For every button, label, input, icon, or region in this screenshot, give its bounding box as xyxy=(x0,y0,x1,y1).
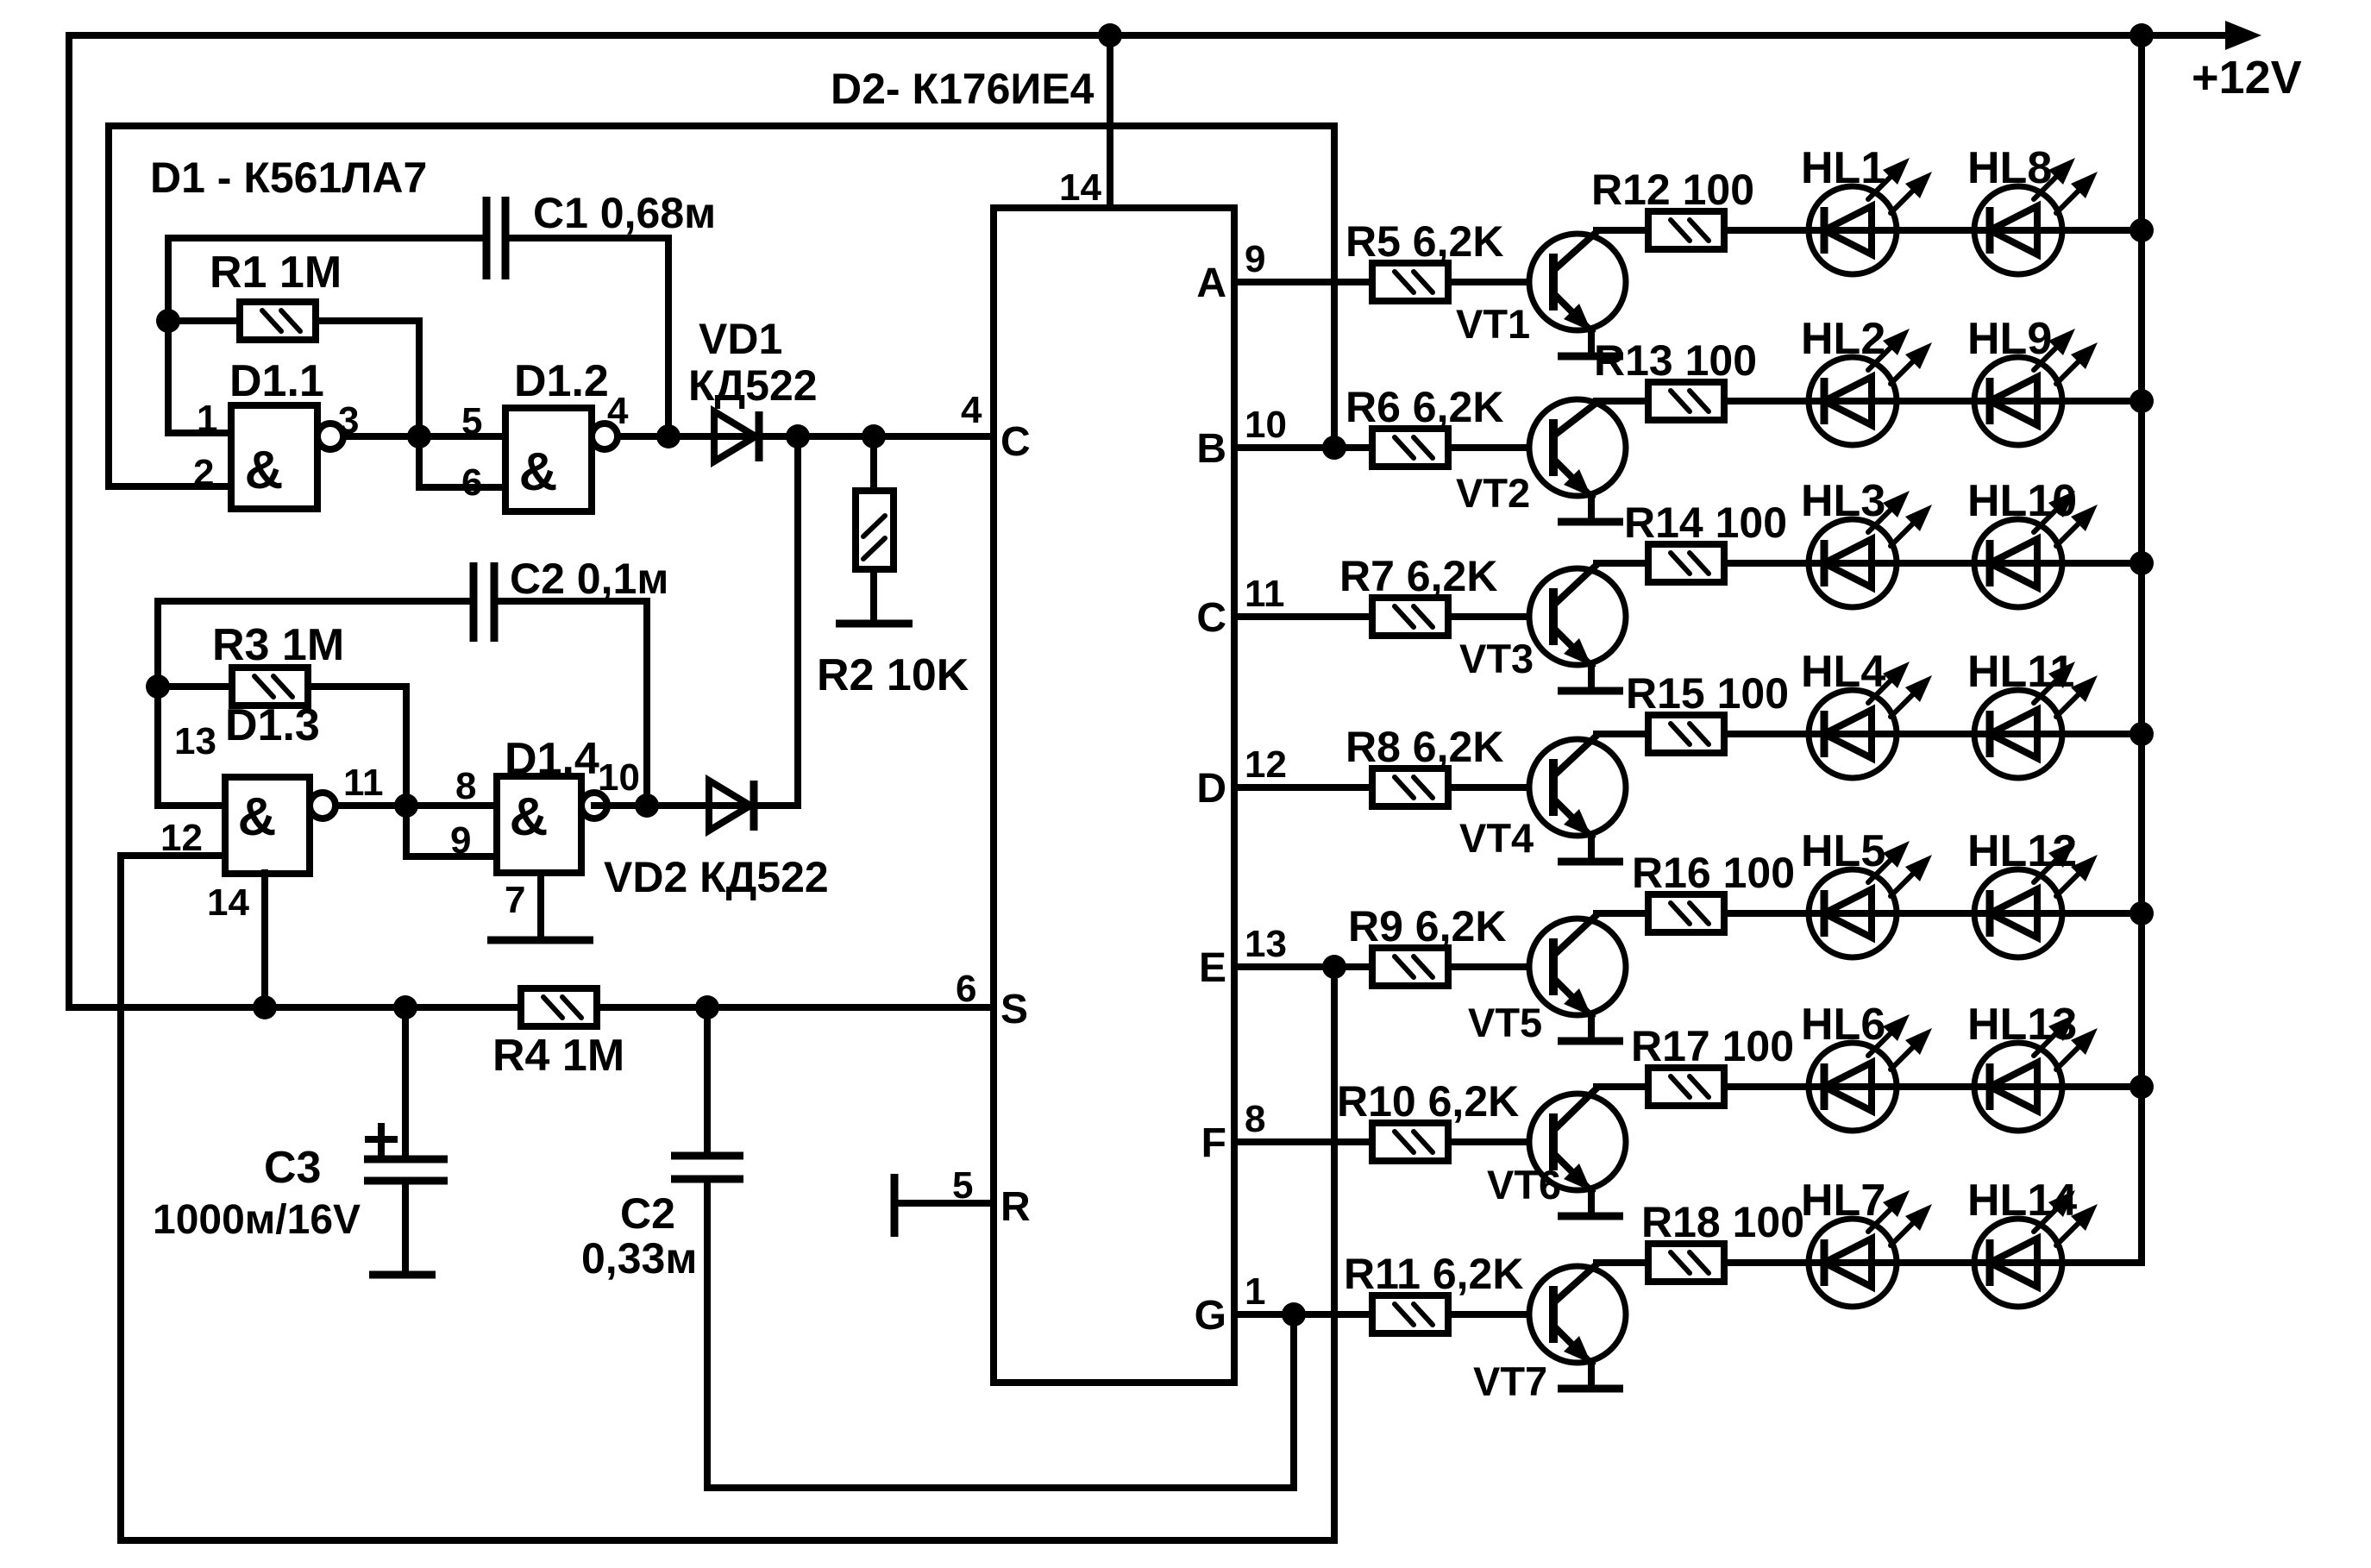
svg-text:HL2: HL2 xyxy=(1801,314,1885,364)
svg-text:R6 6,2K: R6 6,2K xyxy=(1345,383,1503,431)
wire C2-0,33 bottom to G loop xyxy=(707,1179,1294,1488)
wire outer frame left and S row xyxy=(69,35,994,1007)
svg-text:HL5: HL5 xyxy=(1801,826,1885,876)
resistor R14 100 xyxy=(1648,544,1724,582)
resistor R1 1M xyxy=(240,302,316,340)
LED HL4 xyxy=(1809,662,1932,778)
svg-text:HL6: HL6 xyxy=(1801,1000,1885,1050)
svg-text:HL11: HL11 xyxy=(1967,647,2074,697)
junction bus row HL11 xyxy=(2130,722,2154,746)
gate D1.1 xyxy=(231,405,343,509)
LED HL6 xyxy=(1809,1014,1932,1131)
LED HL11 xyxy=(1974,662,2098,778)
junction bus row HL9 xyxy=(2130,389,2154,413)
wire D1.2 output pin 4 to pin C of D2 xyxy=(618,433,994,440)
svg-text:3: 3 xyxy=(338,399,359,442)
junction D1.1 output xyxy=(407,424,431,448)
ground bar R2 xyxy=(836,620,913,628)
svg-text:14: 14 xyxy=(207,881,249,924)
svg-text:R18 100: R18 100 xyxy=(1641,1198,1804,1246)
svg-text:4: 4 xyxy=(607,390,629,432)
svg-text:&: & xyxy=(238,787,277,847)
svg-text:R4 1M: R4 1M xyxy=(492,1031,624,1081)
resistor R4 1M xyxy=(521,988,597,1026)
transistor VT5 xyxy=(1529,915,1626,1041)
svg-text:VT4: VT4 xyxy=(1459,815,1534,861)
svg-text:HL4: HL4 xyxy=(1801,647,1885,697)
svg-text:VD2 КД522: VD2 КД522 xyxy=(604,853,829,901)
IC D2 K176IE4 box xyxy=(994,208,1234,1383)
wire pin F row xyxy=(1234,1138,1549,1145)
gate D1.3 xyxy=(225,777,336,874)
junction R2 tap xyxy=(862,424,886,448)
junction on top rail at pin14 xyxy=(1098,23,1122,47)
LED HL8 xyxy=(1974,158,2098,274)
wire D1.4 pin 7 to common xyxy=(537,873,544,940)
svg-text:D1 - К561ЛА7: D1 - К561ЛА7 xyxy=(150,154,427,202)
junction bus row HL13 xyxy=(2130,1075,2154,1099)
wire C1 right to D1.2 output node xyxy=(505,238,668,436)
svg-text:VT3: VT3 xyxy=(1459,636,1534,681)
node +12V arrow xyxy=(2225,21,2261,50)
svg-text:C: C xyxy=(1196,595,1226,641)
svg-text:8: 8 xyxy=(455,765,476,807)
svg-text:VT1: VT1 xyxy=(1456,301,1530,347)
svg-text:КД522: КД522 xyxy=(688,361,818,410)
resistor R5 6,2K xyxy=(1372,263,1448,301)
svg-text:D1.2: D1.2 xyxy=(514,356,609,406)
svg-text:R1 1M: R1 1M xyxy=(210,248,342,298)
wire D1.2 pin 6 tie xyxy=(419,436,505,487)
junction C3 at S row xyxy=(393,995,417,1019)
svg-text:R14 100: R14 100 xyxy=(1624,499,1787,547)
resistor R10 6,2K xyxy=(1372,1123,1448,1161)
transistor VT1 xyxy=(1529,232,1626,356)
gate D1.4 xyxy=(497,776,607,873)
LED HL7 xyxy=(1809,1190,1932,1307)
svg-text:R15 100: R15 100 xyxy=(1626,669,1789,718)
diode VD2 KD522 xyxy=(709,781,754,831)
svg-text:R7 6,2K: R7 6,2K xyxy=(1339,552,1497,600)
wire pin C row xyxy=(1234,613,1549,620)
junction bus row HL10 xyxy=(2130,551,2154,575)
svg-text:D1.3: D1.3 xyxy=(225,700,320,750)
resistor R16 100 xyxy=(1648,894,1724,932)
transistor VT2 xyxy=(1529,399,1626,522)
svg-text:HL1: HL1 xyxy=(1801,143,1885,193)
svg-text:HL9: HL9 xyxy=(1967,314,2052,364)
LED HL3 xyxy=(1809,491,1932,607)
svg-text:VT5: VT5 xyxy=(1468,1000,1542,1045)
junction E row xyxy=(1322,955,1346,979)
svg-text:C1 0,68м: C1 0,68м xyxy=(533,189,716,237)
junction C1 to output-4 node xyxy=(656,424,681,448)
LED HL1 xyxy=(1809,158,1932,274)
junction B row xyxy=(1322,436,1346,460)
svg-text:F: F xyxy=(1201,1120,1226,1166)
transistor VT4 xyxy=(1529,736,1626,862)
resistor R3 wire xyxy=(158,687,406,806)
wire LED row HL6 xyxy=(1596,1083,2142,1090)
junction B row feedback xyxy=(1322,436,1346,460)
svg-text:1: 1 xyxy=(1245,1270,1265,1313)
wire C1 left to D1.1 pin 1 xyxy=(168,238,486,433)
svg-text:HL13: HL13 xyxy=(1967,1000,2077,1050)
svg-text:&: & xyxy=(245,441,284,500)
wire LED row HL5 xyxy=(1596,910,2142,917)
capacitor C3 1000u electrolytic xyxy=(364,1007,448,1275)
svg-text:C2 0,1м: C2 0,1м xyxy=(510,555,668,603)
junction on top rail at bus xyxy=(2130,23,2154,47)
wire D1.3 output pin 11 to D1.4 pin 8 xyxy=(336,802,497,809)
wire D1.3 pin 12 to E feedback loop xyxy=(121,856,1334,1540)
svg-text:HL14: HL14 xyxy=(1967,1176,2077,1226)
svg-text:9: 9 xyxy=(450,819,471,862)
capacitor C1 0,68u xyxy=(486,197,505,279)
svg-text:HL10: HL10 xyxy=(1967,476,2077,526)
svg-text:HL3: HL3 xyxy=(1801,476,1885,526)
wire pin A row xyxy=(1234,279,1549,285)
resistor R6 6,2K xyxy=(1372,429,1448,467)
junction R3 left xyxy=(146,674,170,699)
svg-text:6: 6 xyxy=(461,461,482,504)
svg-text:0,33м: 0,33м xyxy=(581,1234,697,1283)
svg-text:B: B xyxy=(1196,426,1226,472)
svg-text:A: A xyxy=(1196,260,1226,306)
LED HL10 xyxy=(1974,491,2098,607)
LED HL12 xyxy=(1974,841,2098,957)
wire pin 14 supply of D2 xyxy=(1107,35,1113,208)
svg-text:+12V: +12V xyxy=(2192,52,2302,103)
LED HL14 xyxy=(1974,1190,2098,1307)
svg-text:C: C xyxy=(1000,419,1031,465)
junction C2-0,33 at S row xyxy=(695,995,719,1019)
wire D1.4 output pin 10 to VD2 xyxy=(594,802,798,809)
svg-text:6: 6 xyxy=(956,968,976,1010)
transistor VT7 xyxy=(1529,1264,1626,1389)
diode VD1 KD522 xyxy=(714,411,759,461)
svg-text:12: 12 xyxy=(1245,743,1287,786)
junction D1.3 output xyxy=(394,793,418,818)
junction G row xyxy=(1282,1302,1306,1327)
svg-text:D1.1: D1.1 xyxy=(229,356,324,406)
gate D1.2 xyxy=(505,408,618,511)
wire VD1 node down to VD2 cathode xyxy=(794,436,801,806)
resistor R17 100 xyxy=(1648,1068,1724,1106)
wire C2 right to D1.4 output node xyxy=(494,601,647,806)
svg-text:13: 13 xyxy=(1245,923,1287,965)
wire D1.1 output pin 3 to D1.2 pin 5 xyxy=(343,433,505,440)
svg-text:10: 10 xyxy=(1245,404,1287,446)
svg-text:R3 1M: R3 1M xyxy=(212,620,344,670)
ground bar pin 7 xyxy=(487,937,593,944)
wire pin G row xyxy=(1234,1311,1549,1318)
svg-text:R13 100: R13 100 xyxy=(1594,336,1757,385)
capacitor C2 0,33u xyxy=(671,1007,743,1179)
resistor R1 wire xyxy=(168,321,419,436)
svg-text:R8 6,2K: R8 6,2K xyxy=(1345,723,1503,771)
svg-text:VD1: VD1 xyxy=(699,315,782,363)
resistor R7 6,2K xyxy=(1372,598,1448,636)
junction bus row HL8 xyxy=(2130,218,2154,242)
wire feedback B to D1.1 pin 2 xyxy=(109,126,1334,486)
svg-text:5: 5 xyxy=(461,400,482,442)
svg-text:8: 8 xyxy=(1245,1098,1265,1140)
svg-text:R11 6,2K: R11 6,2K xyxy=(1344,1250,1523,1298)
svg-text:VT6: VT6 xyxy=(1487,1162,1561,1207)
resistor R11 6,2K xyxy=(1372,1295,1448,1333)
resistor R8 6,2K xyxy=(1372,768,1448,806)
wire LED row HL4 xyxy=(1596,731,2142,737)
junction pin14 at S row xyxy=(253,995,277,1019)
svg-text:R16 100: R16 100 xyxy=(1632,849,1795,897)
svg-text:C2: C2 xyxy=(620,1189,675,1238)
resistor R12 100 xyxy=(1648,211,1724,249)
svg-text:VT7: VT7 xyxy=(1473,1358,1547,1404)
svg-text:1000м/16V: 1000м/16V xyxy=(153,1197,361,1243)
wire pin D row xyxy=(1234,784,1549,791)
resistor R9 6,2K xyxy=(1372,948,1448,986)
svg-text:R2 10K: R2 10K xyxy=(817,650,969,700)
wire LED cathode bus right xyxy=(2138,35,2145,1263)
svg-text:R17 100: R17 100 xyxy=(1631,1022,1794,1070)
svg-text:11: 11 xyxy=(343,762,384,804)
LED HL5 xyxy=(1809,841,1932,957)
wire D1.3 pin 14 down to S row xyxy=(261,873,268,1007)
wire C2 left to D1.3 pin 13 xyxy=(158,601,474,806)
wire LED row HL2 xyxy=(1596,398,2142,405)
svg-text:HL8: HL8 xyxy=(1967,143,2052,193)
wire pin E row xyxy=(1234,963,1549,970)
resistor R2 wire down xyxy=(870,436,877,624)
wire LED row HL1 xyxy=(1596,227,2142,234)
svg-text:7: 7 xyxy=(505,879,525,921)
junction VD node to VD2 xyxy=(786,424,810,448)
svg-text:1: 1 xyxy=(197,398,217,440)
svg-text:HL12: HL12 xyxy=(1967,826,2077,876)
resistor R13 100 xyxy=(1648,382,1724,420)
svg-text:11: 11 xyxy=(1245,573,1285,615)
junction C2 to pin10 node xyxy=(635,793,659,818)
wire LED row HL7 xyxy=(1596,1259,2142,1266)
transistor VT3 xyxy=(1529,565,1626,691)
svg-text:2: 2 xyxy=(193,452,214,494)
svg-text:D1.4: D1.4 xyxy=(505,734,599,784)
svg-text:14: 14 xyxy=(1059,166,1101,209)
junction bus row HL12 xyxy=(2130,901,2154,925)
svg-text:&: & xyxy=(510,787,549,847)
svg-text:S: S xyxy=(1000,987,1028,1032)
wire D1.4 pin 9 tie xyxy=(406,806,497,856)
svg-text:D2- К176ИЕ4: D2- К176ИЕ4 xyxy=(831,65,1095,113)
wire LED row HL3 xyxy=(1596,560,2142,567)
LED HL13 xyxy=(1974,1014,2098,1131)
resistor R3 1M xyxy=(232,668,308,706)
svg-text:R10 6,2K: R10 6,2K xyxy=(1337,1077,1519,1126)
LED HL2 xyxy=(1809,329,1932,445)
capacitor C2 0,1u xyxy=(474,562,494,642)
wire R pin to terminator xyxy=(897,1200,994,1207)
svg-text:&: & xyxy=(519,442,558,502)
terminator bar R pin xyxy=(891,1174,899,1237)
svg-text:R5 6,2K: R5 6,2K xyxy=(1345,217,1503,266)
wire pin B row xyxy=(1234,444,1549,451)
svg-text:R: R xyxy=(1000,1184,1031,1230)
transistor VT6 xyxy=(1529,1088,1626,1216)
svg-text:VT2: VT2 xyxy=(1456,470,1530,516)
svg-text:E: E xyxy=(1199,945,1226,991)
svg-text:10: 10 xyxy=(598,756,640,799)
wire +12V top rail xyxy=(69,32,2229,39)
LED HL9 xyxy=(1974,329,2098,445)
svg-text:9: 9 xyxy=(1245,238,1265,280)
svg-text:G: G xyxy=(1195,1293,1226,1339)
resistor R18 100 xyxy=(1648,1244,1724,1282)
svg-text:4: 4 xyxy=(961,389,982,431)
svg-text:C3: C3 xyxy=(264,1143,321,1193)
svg-text:R9 6,2K: R9 6,2K xyxy=(1348,902,1506,950)
resistor R15 100 xyxy=(1648,715,1724,753)
svg-text:R12 100: R12 100 xyxy=(1591,166,1754,214)
resistor R2 10K vertical xyxy=(856,491,894,569)
svg-text:13: 13 xyxy=(174,720,216,762)
junction R1 left xyxy=(156,309,180,333)
svg-text:HL7: HL7 xyxy=(1801,1176,1885,1226)
svg-text:D: D xyxy=(1196,766,1226,812)
